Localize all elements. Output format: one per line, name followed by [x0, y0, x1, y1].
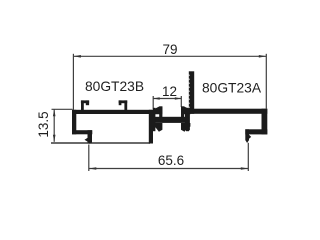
dimension 12 line [153, 98, 181, 100]
dimension 13.5 top extension line [52, 108, 73, 110]
profile A stub [245, 129, 249, 140]
connector right clip bottom wing [181, 123, 190, 132]
svg-text:13.5: 13.5 [36, 111, 51, 137]
profile B top edge [72, 110, 153, 114]
thermal break connector [153, 106, 190, 131]
dimension 65.6 right arrow [241, 167, 249, 170]
profile B hook 2 bar [119, 100, 128, 103]
dimension 12 right arrow [175, 97, 182, 100]
profile B hook 1 bar [81, 100, 89, 103]
profile B stub barb [85, 138, 88, 142]
dimension 13.5 line [53, 109, 55, 142]
profile 80GT23B body [72, 100, 153, 143]
profile A tall bar serration (white notches on left edge) [189, 74, 190, 108]
profile A top edge [185, 109, 268, 114]
dimension 12 left arrow [153, 97, 160, 100]
profile A left wall [185, 109, 190, 130]
profile A bottom bar [245, 129, 267, 134]
dimension 65.6 right extension line [247, 143, 249, 171]
dimension 79 right arrow [259, 55, 267, 58]
dimension 13.5 top arrow [53, 109, 56, 116]
profile B hook 2 lip [119, 100, 122, 105]
dimension 65.6 line [89, 168, 249, 170]
svg-text:79: 79 [162, 42, 177, 57]
connector left clip root [153, 108, 155, 131]
dimension 79 left extension line [72, 54, 74, 110]
connector left clip bottom wing [153, 123, 162, 132]
dimension 13.5 bottom arrow [53, 135, 56, 142]
svg-text:80GT23B: 80GT23B [85, 79, 144, 94]
connector left clip top wing column [159, 106, 162, 117]
dimension 12 left extension line [152, 96, 154, 109]
profile B hook 1 stem [81, 100, 84, 110]
dimension 79 right extension line [265, 54, 267, 109]
profile 80GT23A body [185, 71, 268, 143]
connector right clip top wing flag [181, 106, 190, 114]
dimension 79 left arrow [73, 55, 81, 58]
profile B stub [88, 130, 93, 143]
svg-text:12: 12 [162, 84, 177, 99]
connector right clip top wing column [181, 106, 184, 117]
connector right clip root [186, 108, 189, 131]
profile B hook 2 stem [124, 100, 127, 110]
connector left clip top wing flag [153, 106, 162, 114]
profile A stub barb [249, 135, 251, 139]
profile A stub tip [245, 140, 249, 143]
profile B hook 1 lip [86, 100, 89, 105]
dimension 65.6 left extension line [88, 145, 90, 172]
profile B step bar [72, 130, 92, 134]
profile A right wall [262, 109, 268, 135]
svg-text:80GT23A: 80GT23A [202, 81, 262, 96]
dimension 13.5 bottom extension line + profile B thin bottom line [51, 142, 150, 144]
profile B right wall [149, 110, 153, 144]
svg-text:65.6: 65.6 [158, 153, 184, 168]
dimension 65.6 left arrow [89, 167, 97, 170]
profile A tall serrated bar [189, 71, 194, 114]
profile B left wall [72, 110, 76, 135]
dimension 79 line [73, 55, 266, 57]
connector bar [155, 117, 186, 123]
profile B stub tip [88, 142, 93, 144]
dimension 12 right extension line [180, 96, 182, 107]
